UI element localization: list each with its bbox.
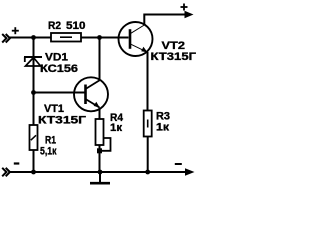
wire R4 bottom lead	[99, 145, 101, 172]
label + (top-left)	[12, 27, 19, 34]
resistor R3	[144, 111, 152, 137]
wire VT1 emitter down	[99, 108, 101, 120]
transistor VT2	[119, 22, 153, 56]
wire top rail left	[9, 37, 51, 39]
svg-text:VD1: VD1	[45, 52, 68, 64]
wire R1 bottom lead	[33, 150, 35, 172]
wire left rail	[33, 38, 35, 126]
svg-text:1к: 1к	[156, 122, 170, 134]
junction ground/bus	[98, 170, 103, 175]
svg-text:510: 510	[66, 20, 86, 32]
input terminal bottom-left	[2, 168, 10, 177]
R2 power mark 0.5W	[60, 36, 72, 38]
wire top rail right	[81, 37, 129, 39]
label + (top-right)	[181, 4, 188, 11]
svg-text:VT1: VT1	[44, 103, 64, 115]
wire base VT1	[34, 92, 86, 94]
svg-text:КС156: КС156	[40, 63, 78, 75]
junction node B	[97, 35, 102, 40]
junction node C	[31, 90, 36, 95]
svg-text:1к: 1к	[110, 122, 123, 134]
svg-text:R2: R2	[48, 20, 61, 32]
transistor VT1	[74, 77, 108, 111]
label − (bottom-left)	[14, 162, 19, 164]
junction R3/bus	[145, 170, 150, 175]
bottom bus wire	[9, 171, 186, 173]
R4 tap junction	[97, 148, 102, 153]
output arrow top-right	[185, 11, 194, 19]
resistor R1	[30, 125, 38, 150]
wire VT2 emitter down	[147, 52, 149, 111]
R3 power mark 1W	[147, 120, 149, 128]
svg-text:5,1к: 5,1к	[40, 146, 57, 158]
wire R3 bottom lead	[147, 137, 149, 173]
junction node A	[31, 35, 36, 40]
output arrow bottom-right	[185, 168, 195, 176]
junction R1/bus	[31, 170, 36, 175]
wire VT2 collector up and right	[144, 15, 185, 26]
input terminal top-left	[2, 34, 10, 43]
zener diode VD1	[24, 57, 42, 66]
svg-text:R3: R3	[156, 110, 170, 122]
ground	[90, 172, 110, 183]
R4 tap	[100, 138, 111, 151]
svg-text:КТ315Г: КТ315Г	[151, 51, 197, 63]
label − (bottom-right)	[175, 163, 182, 165]
resistor R2	[51, 33, 81, 42]
R1 power mark 0.125W	[31, 135, 36, 140]
resistor R4 (trimmer)	[96, 119, 104, 145]
wire VT1 collector up	[99, 38, 101, 81]
svg-text:КТ315Г: КТ315Г	[38, 115, 87, 127]
